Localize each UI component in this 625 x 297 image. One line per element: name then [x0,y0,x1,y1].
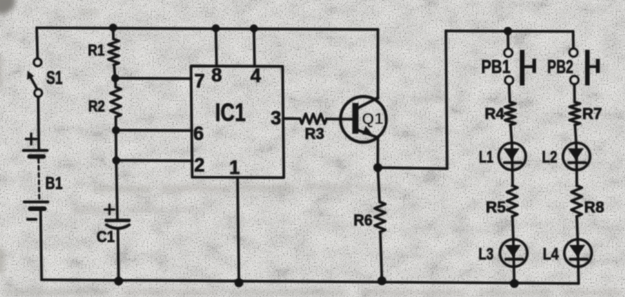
svg-text:R8: R8 [584,200,604,217]
svg-text:R3: R3 [305,126,325,143]
svg-text:PB1: PB1 [481,56,510,77]
svg-text:R4: R4 [485,106,505,123]
svg-text:C1: C1 [97,229,115,246]
svg-text:6: 6 [193,124,204,145]
svg-text:L4: L4 [543,245,560,263]
svg-text:R5: R5 [486,200,506,217]
svg-text:L2: L2 [542,149,557,167]
svg-text:8: 8 [211,66,222,87]
svg-text:B1: B1 [45,173,63,193]
svg-text:L1: L1 [479,149,494,167]
svg-text:S1: S1 [46,67,62,88]
svg-text:L3: L3 [479,245,494,263]
svg-text:PB2: PB2 [547,56,573,77]
svg-text:2: 2 [194,156,205,177]
svg-text:R1: R1 [88,43,105,60]
svg-text:Q1: Q1 [362,111,384,128]
svg-text:3: 3 [271,108,282,129]
svg-text:1: 1 [229,158,240,179]
svg-text:IC1: IC1 [215,99,246,127]
svg-text:4: 4 [250,66,261,87]
svg-text:R6: R6 [354,212,373,229]
svg-text:R2: R2 [88,98,105,115]
svg-text:R7: R7 [582,106,602,123]
svg-text:7: 7 [194,71,205,92]
